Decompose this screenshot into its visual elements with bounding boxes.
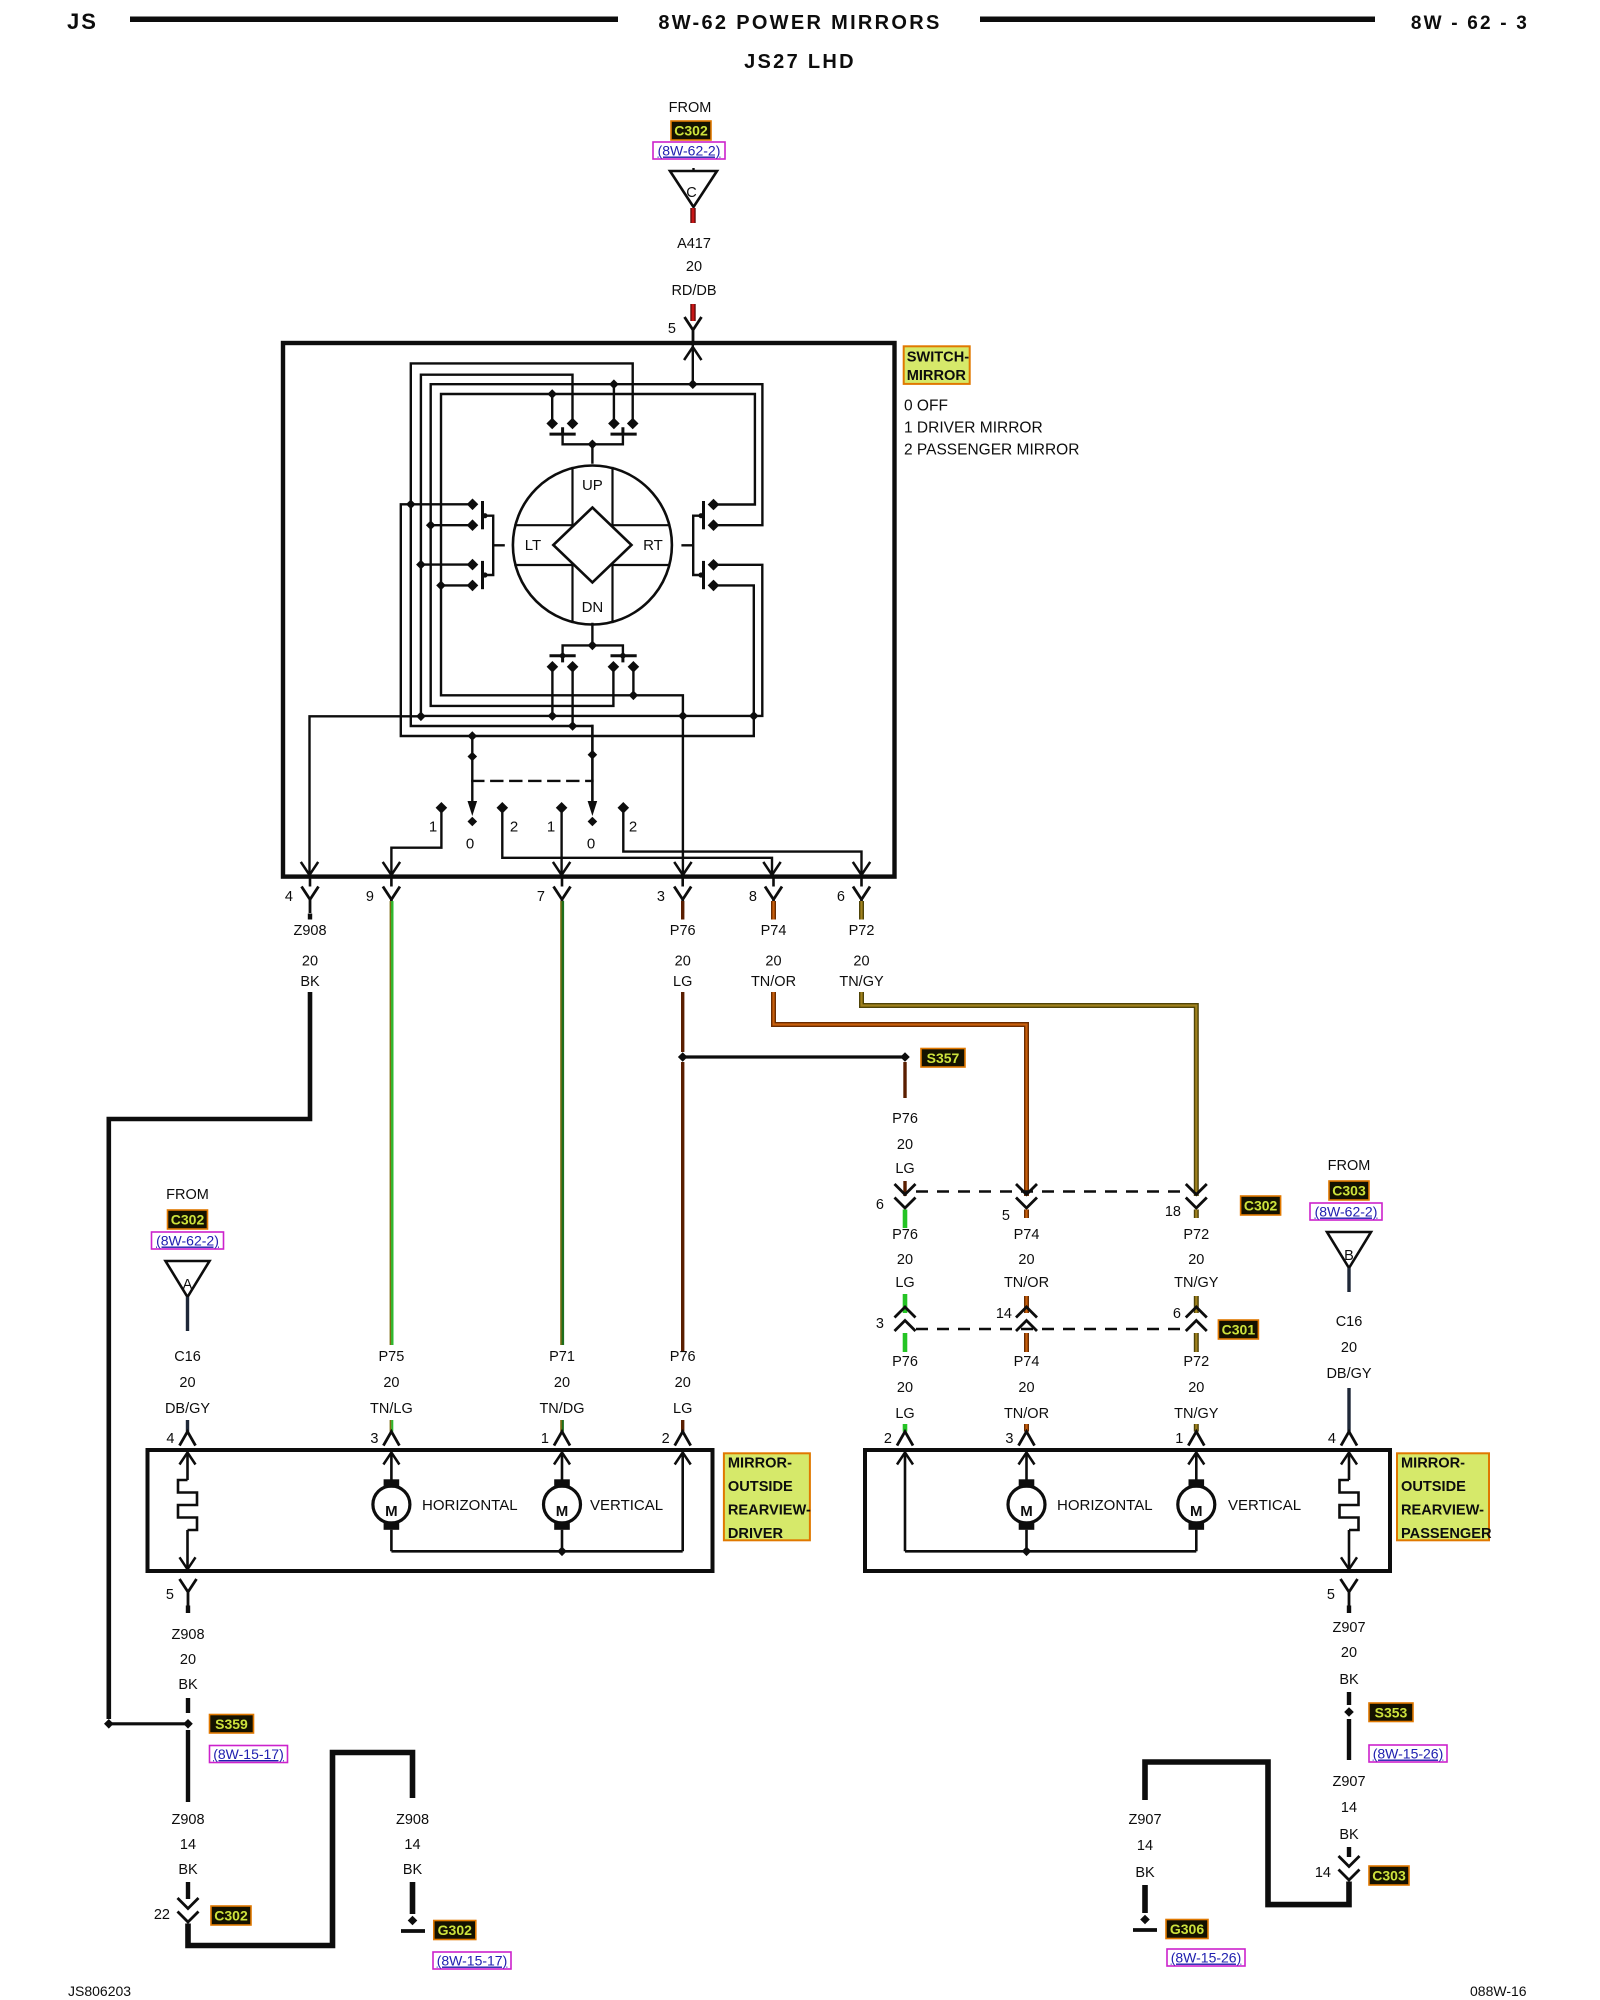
contact dot bottom C with stem	[608, 661, 620, 673]
ground G306 symbol	[1140, 1915, 1150, 1925]
connector C302 dashed line	[916, 1190, 1185, 1192]
wire P76 stub to fork	[903, 1424, 908, 1432]
resistor (driver mirror)	[178, 1453, 197, 1558]
wire bus W2 to top contact B and line C	[421, 375, 762, 716]
component label MIRROR-OUTSIDE REARVIEW-DRIVER	[724, 1453, 810, 1540]
svg-text:P76: P76	[670, 1349, 696, 1365]
svg-text:TN/GY: TN/GY	[839, 974, 884, 990]
splice S353	[1344, 1707, 1354, 1717]
svg-text:1: 1	[547, 819, 555, 836]
off-page connector triangle B	[1327, 1232, 1371, 1268]
link label (8W-15-26) under G306	[1167, 1949, 1245, 1966]
link label (8W-62-2) right	[1310, 1203, 1382, 1220]
wire Z908 20 BK stub	[186, 1606, 190, 1614]
svg-text:FROM: FROM	[1328, 1158, 1371, 1174]
svg-text:SWITCH-: SWITCH-	[907, 350, 970, 366]
svg-text:M: M	[1020, 1503, 1033, 1520]
node W4 x wire4	[436, 581, 446, 591]
svg-text:RD/DB: RD/DB	[671, 283, 716, 299]
svg-text:FROM: FROM	[669, 100, 712, 116]
pin 6 stub and fork	[860, 877, 863, 887]
svg-text:TN/OR: TN/OR	[1004, 1275, 1049, 1291]
switch S1 box MIRROR SWITCH outline	[283, 343, 895, 877]
wire C16 DB/GY stub below A	[186, 1297, 189, 1331]
wire P76 LG below C301	[903, 1333, 908, 1352]
ground G302 symbol	[408, 1916, 418, 1926]
svg-text:0: 0	[587, 836, 595, 853]
motor M horizontal (passenger)	[1025, 1453, 1028, 1480]
connector label C301 (row)	[1218, 1320, 1258, 1339]
svg-text:LT: LT	[525, 537, 541, 554]
svg-text:20: 20	[686, 259, 702, 275]
svg-text:0 OFF: 0 OFF	[904, 398, 948, 415]
svg-text:C302: C302	[171, 1212, 205, 1228]
pin 7 stub and fork	[561, 877, 564, 887]
wire Z908 pin4 stub	[308, 914, 312, 920]
contact dot left 3	[467, 559, 479, 571]
svg-text:FROM: FROM	[166, 1187, 209, 1203]
wire Z907 14 BK jog to G306	[1145, 1762, 1349, 1905]
splice S357 line	[683, 1055, 905, 1058]
svg-text:UP: UP	[582, 477, 603, 494]
node top contact A junction on W4	[547, 389, 557, 399]
node W2 x wire3	[416, 560, 426, 570]
svg-text:2: 2	[884, 1431, 892, 1447]
wire P74 stub below C302	[1024, 1210, 1029, 1219]
svg-text:20: 20	[1188, 1252, 1204, 1268]
svg-text:BK: BK	[300, 974, 320, 990]
svg-text:P76: P76	[892, 1111, 918, 1127]
wire selector drop 1	[471, 736, 473, 802]
wire Z907 to ground G306	[1142, 1885, 1148, 1913]
wire P74 TN/OR to C302	[774, 992, 1027, 1196]
wire position 2 to pin 8	[502, 812, 772, 874]
wire P71 TN/DG (pin 7)	[560, 901, 562, 1345]
motor M horizontal (driver)	[390, 1453, 393, 1480]
svg-text:5: 5	[668, 321, 676, 337]
wire P74 below C301	[1024, 1333, 1029, 1352]
node W1 x wire1	[406, 500, 416, 510]
wire Z908 to ground G302	[410, 1882, 416, 1914]
resistor (passenger mirror)	[1340, 1453, 1359, 1558]
pin 8 stub and fork	[772, 877, 775, 887]
svg-text:A417: A417	[677, 236, 711, 252]
wire Z908 to S359	[186, 1698, 190, 1713]
link label (8W-15-17) under S359	[210, 1746, 288, 1763]
off-page connector triangle C	[670, 171, 717, 207]
wire top movable contacts to circle	[563, 434, 623, 463]
svg-text:BK: BK	[403, 1862, 423, 1878]
svg-text:1: 1	[429, 819, 437, 836]
svg-text:MIRROR-: MIRROR-	[1401, 1456, 1465, 1472]
connector C301 chevron pin 6	[1186, 1307, 1207, 1331]
wire P72 stub above C301	[1194, 1296, 1199, 1313]
connector label C302 (top)	[671, 121, 711, 140]
svg-text:4: 4	[166, 1431, 174, 1447]
wire top contact A stem	[551, 394, 553, 419]
node top contact C junction on W3	[609, 379, 619, 389]
svg-text:JS: JS	[67, 9, 98, 34]
wire bus W1 to top contact D	[411, 363, 633, 806]
wire left contact row 3	[421, 563, 473, 565]
wire P76 LG driver stub to fork	[681, 1420, 684, 1432]
pin 5 fork into switch	[685, 317, 702, 344]
passenger resistor exit arrow	[1341, 1557, 1357, 1569]
svg-text:C301: C301	[1222, 1322, 1256, 1338]
svg-text:HORIZONTAL: HORIZONTAL	[422, 1497, 518, 1514]
svg-text:LG: LG	[673, 1401, 692, 1417]
svg-text:P74: P74	[1014, 1227, 1040, 1243]
passenger mirror pin 1 fork	[1188, 1432, 1204, 1446]
switch contact bar top left	[551, 429, 574, 434]
svg-text:8: 8	[749, 889, 757, 905]
svg-text:14: 14	[1341, 1800, 1357, 1816]
svg-text:20: 20	[1018, 1252, 1034, 1268]
mirror passenger box outline	[865, 1450, 1390, 1571]
pin 3 stub and fork	[681, 877, 684, 887]
switch contact bar right lower	[702, 562, 705, 587]
switch movable contact left	[486, 516, 504, 575]
driver pin 2 entry arrow	[675, 1453, 691, 1465]
contact dot right 2	[708, 519, 720, 531]
svg-text:20: 20	[765, 954, 781, 970]
contact dot bottom D with stem to line A	[628, 661, 640, 673]
pin 3 exit arrow	[675, 863, 691, 875]
passenger pin 3 entry arrow	[1019, 1453, 1035, 1465]
svg-text:20: 20	[383, 1375, 399, 1391]
driver pin 4 entry arrow	[180, 1453, 196, 1465]
svg-text:C16: C16	[174, 1349, 201, 1365]
svg-text:6: 6	[876, 1197, 884, 1213]
svg-text:JS806203: JS806203	[68, 1983, 131, 1999]
pin 4 stub and fork	[309, 877, 312, 887]
node pin5 junction on bus W3	[688, 379, 698, 389]
contact dot top D	[627, 418, 639, 430]
driver mirror pin 4 fork	[180, 1432, 196, 1446]
svg-text:C302: C302	[1244, 1198, 1278, 1214]
svg-text:Z907: Z907	[1332, 1774, 1365, 1790]
contact dot position 2 (passenger)	[618, 802, 630, 814]
svg-text:Z908: Z908	[293, 923, 326, 939]
pin 9 exit arrow	[383, 863, 399, 875]
knob chord upper horizontal	[515, 524, 669, 526]
node W3 x wire2	[426, 520, 436, 530]
wire left contact row 1 extension and line E	[401, 504, 754, 736]
svg-text:20: 20	[1188, 1380, 1204, 1396]
svg-text:2 PASSENGER MIRROR: 2 PASSENGER MIRROR	[904, 442, 1079, 459]
node bottom center	[588, 641, 598, 651]
knob chord lower horizontal	[515, 564, 669, 566]
node pin3 vertical x line C	[678, 711, 688, 721]
svg-text:LG: LG	[895, 1161, 914, 1177]
wire Z907 below S353	[1347, 1719, 1351, 1760]
ground label G302	[434, 1921, 476, 1940]
svg-text:5: 5	[1327, 1587, 1335, 1603]
header rule right	[980, 17, 1375, 23]
svg-text:6: 6	[1173, 1306, 1181, 1322]
connector C302 chevron pin 6	[895, 1184, 916, 1208]
driver pin 3 entry arrow	[383, 1453, 399, 1465]
svg-text:LG: LG	[895, 1406, 914, 1422]
svg-text:(8W-62-2): (8W-62-2)	[1315, 1204, 1378, 1220]
svg-text:C302: C302	[674, 123, 708, 139]
svg-text:TN/DG: TN/DG	[539, 1401, 584, 1417]
passenger mirror pin 3 fork	[1019, 1432, 1035, 1446]
passenger pin 5 fork	[1341, 1579, 1358, 1606]
svg-text:TN/OR: TN/OR	[1004, 1406, 1049, 1422]
contact dot position 2 (driver)	[497, 802, 509, 814]
svg-text:14: 14	[996, 1306, 1012, 1322]
switch contact bar right upper	[702, 503, 705, 528]
svg-text:4: 4	[285, 889, 293, 905]
svg-text:6: 6	[837, 889, 845, 905]
svg-text:18: 18	[1165, 1204, 1181, 1220]
motor M vertical (passenger)	[1195, 1453, 1198, 1480]
svg-text:1: 1	[1175, 1431, 1183, 1447]
svg-text:Z907: Z907	[1128, 1812, 1161, 1828]
svg-text:S353: S353	[1375, 1705, 1408, 1721]
connector C302 chevron pin 5	[1016, 1184, 1037, 1208]
off-page connector triangle A	[166, 1261, 210, 1297]
svg-text:TN/LG: TN/LG	[370, 1401, 413, 1417]
svg-text:20: 20	[302, 954, 318, 970]
svg-text:P74: P74	[761, 923, 787, 939]
wire driver motor common return	[391, 1453, 682, 1552]
splice label S353	[1369, 1703, 1413, 1722]
svg-text:TN/GY: TN/GY	[1174, 1406, 1219, 1422]
wire P76 LG green stub below C302	[903, 1210, 908, 1229]
contact dot position 1 (driver)	[436, 802, 448, 814]
switch contact bar left lower	[481, 562, 484, 587]
contact dot right 4	[708, 580, 720, 592]
wire Z908 black feed to S359	[109, 992, 310, 1719]
svg-text:20: 20	[897, 1137, 913, 1153]
dashed gang line between selector drops	[472, 780, 592, 782]
knob chord left vertical	[571, 468, 573, 622]
knob diamond	[553, 508, 631, 583]
splice S359 line	[109, 1722, 188, 1725]
wire pin 4 tap	[310, 716, 421, 876]
wire P76 LG continues to driver mirror	[681, 1062, 684, 1352]
wire pin5 entry into switch	[692, 343, 694, 384]
contact dot bottom B with stem to line D	[567, 661, 579, 673]
pin 4 exit arrow	[302, 863, 318, 875]
svg-text:20: 20	[179, 1375, 195, 1391]
passenger pin 4 entry arrow	[1341, 1453, 1357, 1465]
wire Z908 14 BK jog to G302	[188, 1753, 413, 1946]
svg-text:Z908: Z908	[396, 1812, 429, 1828]
svg-text:REARVIEW-: REARVIEW-	[1401, 1503, 1484, 1519]
passenger pin 1 entry arrow	[1188, 1453, 1204, 1465]
svg-text:14: 14	[404, 1837, 420, 1853]
switch contact bar left upper	[481, 503, 484, 528]
passenger mirror pin 2 fork	[897, 1432, 913, 1446]
svg-text:8W - 62 - 3: 8W - 62 - 3	[1411, 13, 1529, 34]
svg-text:HORIZONTAL: HORIZONTAL	[1057, 1497, 1153, 1514]
svg-text:G302: G302	[438, 1922, 472, 1938]
wire P74 stub above C301	[1024, 1296, 1029, 1313]
svg-text:P72: P72	[1183, 1354, 1209, 1370]
connector label C303 (bottom)	[1369, 1866, 1409, 1885]
svg-text:Z907: Z907	[1332, 1620, 1365, 1636]
contact dot top A	[546, 418, 558, 430]
driver mirror pin 3 fork	[383, 1432, 399, 1446]
connector C301 chevron pin 3	[895, 1307, 916, 1331]
driver pin 1 entry arrow	[554, 1453, 570, 1465]
svg-text:22: 22	[154, 1907, 170, 1923]
wire bus W4 and line A to pin 3	[441, 394, 755, 876]
svg-text:7: 7	[537, 889, 545, 905]
wire P76 LG stub above C302	[903, 1181, 906, 1196]
wire P72 stub below C302	[1194, 1210, 1199, 1219]
svg-text:2: 2	[629, 819, 637, 836]
contact dot top C	[608, 418, 620, 430]
svg-text:MIRROR-: MIRROR-	[728, 1456, 792, 1472]
svg-text:P72: P72	[849, 923, 875, 939]
wire position 2b to pin 6	[623, 812, 861, 874]
passenger pin 2 entry arrow	[897, 1453, 913, 1465]
svg-text:P75: P75	[378, 1349, 404, 1365]
wire left contact row 4	[441, 584, 473, 586]
svg-text:(8W-15-17): (8W-15-17)	[213, 1746, 284, 1762]
pin 9 stub and fork	[390, 877, 393, 887]
motor M vertical (driver)	[561, 1453, 564, 1480]
switch contact bar top right	[612, 429, 635, 434]
contact dot position 1 (passenger)	[556, 802, 568, 814]
pin 7 exit arrow	[554, 863, 570, 875]
svg-text:4: 4	[1328, 1431, 1336, 1447]
svg-text:20: 20	[1341, 1340, 1357, 1356]
header rule left	[130, 17, 618, 23]
driver mirror pin 1 fork	[554, 1432, 570, 1446]
connector C301 dashed line	[916, 1328, 1185, 1330]
connector C303 chevron pin 14	[1339, 1856, 1360, 1880]
svg-text:20: 20	[897, 1380, 913, 1396]
svg-text:Z908: Z908	[171, 1812, 204, 1828]
svg-text:OUTSIDE: OUTSIDE	[1401, 1479, 1466, 1495]
svg-text:14: 14	[1137, 1838, 1153, 1854]
component label MIRROR-OUTSIDE REARVIEW-PASSENGER	[1397, 1453, 1489, 1540]
pin 5 entry arrow	[685, 347, 701, 359]
svg-text:B: B	[1344, 1248, 1354, 1264]
svg-text:C302: C302	[214, 1908, 248, 1924]
svg-text:P71: P71	[549, 1349, 575, 1365]
node right vertical x line C	[749, 711, 759, 721]
svg-text:TN/GY: TN/GY	[1174, 1275, 1219, 1291]
svg-text:Z908: Z908	[171, 1627, 204, 1643]
svg-text:C303: C303	[1332, 1183, 1366, 1199]
svg-text:JS27 LHD: JS27 LHD	[744, 51, 856, 73]
svg-text:8W-62 POWER MIRRORS: 8W-62 POWER MIRRORS	[658, 12, 941, 34]
wire selector drop 2	[591, 726, 593, 802]
wire C16 DB/GY driver to fork	[186, 1420, 189, 1432]
wire position 1b to pin 7	[560, 812, 562, 874]
svg-text:DB/GY: DB/GY	[165, 1401, 210, 1417]
contact dot top B	[567, 418, 579, 430]
svg-text:P72: P72	[1183, 1227, 1209, 1243]
selector drop 1 arrowhead	[468, 801, 478, 816]
svg-text:(8W-15-26): (8W-15-26)	[1171, 1950, 1242, 1966]
svg-text:C303: C303	[1372, 1868, 1406, 1884]
svg-text:3: 3	[1005, 1431, 1013, 1447]
svg-text:OUTSIDE: OUTSIDE	[728, 1479, 793, 1495]
wire P74 stub to fork	[1024, 1424, 1029, 1432]
svg-text:20: 20	[1341, 1645, 1357, 1661]
svg-text:DB/GY: DB/GY	[1326, 1366, 1371, 1382]
svg-text:LG: LG	[673, 974, 692, 990]
connector label C302 (row)	[1241, 1196, 1281, 1215]
svg-text:P76: P76	[892, 1227, 918, 1243]
wire Z907 20 BK stub	[1347, 1606, 1351, 1614]
pin 6 exit arrow	[854, 863, 870, 875]
connector label C302 (left)	[168, 1210, 208, 1229]
svg-text:M: M	[556, 1503, 569, 1520]
svg-text:G306: G306	[1170, 1921, 1204, 1937]
svg-text:P76: P76	[892, 1354, 918, 1370]
svg-text:088W-16: 088W-16	[1470, 1983, 1527, 1999]
driver mirror pin 2 fork	[675, 1432, 691, 1446]
splice label S357	[921, 1049, 965, 1068]
svg-text:1 DRIVER MIRROR: 1 DRIVER MIRROR	[904, 420, 1043, 437]
node top center	[588, 440, 598, 450]
contact dot left 2	[467, 519, 479, 531]
wire P72 TN/GY stub (pin 6)	[859, 901, 864, 920]
svg-text:3: 3	[657, 889, 665, 905]
svg-text:20: 20	[1018, 1380, 1034, 1396]
splice label S359	[210, 1715, 254, 1734]
switch contact bar bottom left	[551, 656, 574, 661]
svg-text:TN/OR: TN/OR	[751, 974, 796, 990]
wire top contact C stem	[613, 384, 615, 418]
wire Z908 below S359	[186, 1730, 190, 1802]
wire P76 LG stub above C301	[903, 1294, 908, 1313]
wire C16 DB/GY to fork	[1347, 1388, 1350, 1432]
contact dot right 3	[708, 559, 720, 571]
switch movable contact right	[683, 516, 701, 575]
wire P72 below C301	[1194, 1333, 1199, 1352]
knob chord right vertical	[611, 468, 613, 622]
svg-text:20: 20	[897, 1252, 913, 1268]
pin 8 exit arrow	[764, 863, 780, 875]
svg-text:S359: S359	[215, 1716, 248, 1732]
svg-text:VERTICAL: VERTICAL	[590, 1497, 663, 1514]
passenger mirror pin 4 fork	[1341, 1432, 1357, 1446]
svg-text:(8W-62-2): (8W-62-2)	[658, 143, 721, 159]
contact dot bottom A with stem to line C	[547, 661, 559, 673]
svg-text:20: 20	[675, 954, 691, 970]
selector drop 2 arrowhead	[588, 801, 598, 816]
svg-text:M: M	[1190, 1503, 1203, 1520]
connector C301 chevron pin 14	[1016, 1307, 1037, 1331]
svg-text:P74: P74	[1014, 1354, 1040, 1370]
svg-text:5: 5	[166, 1587, 174, 1603]
wire P75 TN/LG (pin 9)	[390, 901, 392, 1345]
wire Z908 to C302 chevron	[186, 1882, 190, 1899]
svg-text:20: 20	[853, 954, 869, 970]
component label SWITCH-MIRROR	[904, 346, 970, 384]
contact dot right 1	[708, 499, 720, 511]
svg-text:14: 14	[180, 1837, 196, 1853]
svg-text:20: 20	[180, 1652, 196, 1668]
svg-text:DN: DN	[582, 599, 604, 616]
svg-text:VERTICAL: VERTICAL	[1228, 1497, 1301, 1514]
link label (8W-62-2) left	[152, 1232, 224, 1249]
ground label G306	[1166, 1920, 1208, 1939]
svg-text:2: 2	[510, 819, 518, 836]
connector C302 chevron pin 18	[1186, 1184, 1207, 1208]
svg-text:MIRROR: MIRROR	[907, 368, 967, 384]
svg-text:C16: C16	[1336, 1314, 1363, 1330]
